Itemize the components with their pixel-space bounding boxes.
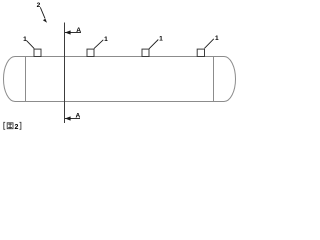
svg-text:1: 1 [159, 35, 163, 42]
svg-text:1: 1 [23, 36, 27, 43]
svg-text:1: 1 [104, 36, 108, 43]
svg-text:A: A [76, 27, 81, 34]
svg-text:1: 1 [215, 35, 219, 42]
svg-text:2: 2 [15, 124, 19, 131]
svg-text:A: A [76, 113, 81, 120]
